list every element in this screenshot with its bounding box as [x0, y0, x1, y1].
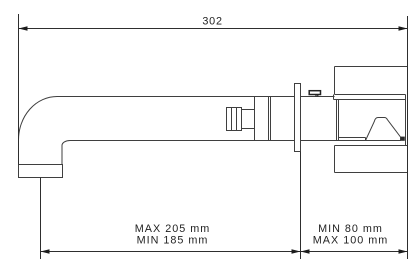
- svg-text:302: 302: [202, 15, 222, 27]
- svg-text:MIN 185 mm: MIN 185 mm: [137, 235, 209, 247]
- svg-text:MAX 100 mm: MAX 100 mm: [313, 235, 388, 247]
- svg-text:MIN 80 mm: MIN 80 mm: [318, 223, 383, 235]
- svg-text:MAX 205 mm: MAX 205 mm: [135, 223, 210, 235]
